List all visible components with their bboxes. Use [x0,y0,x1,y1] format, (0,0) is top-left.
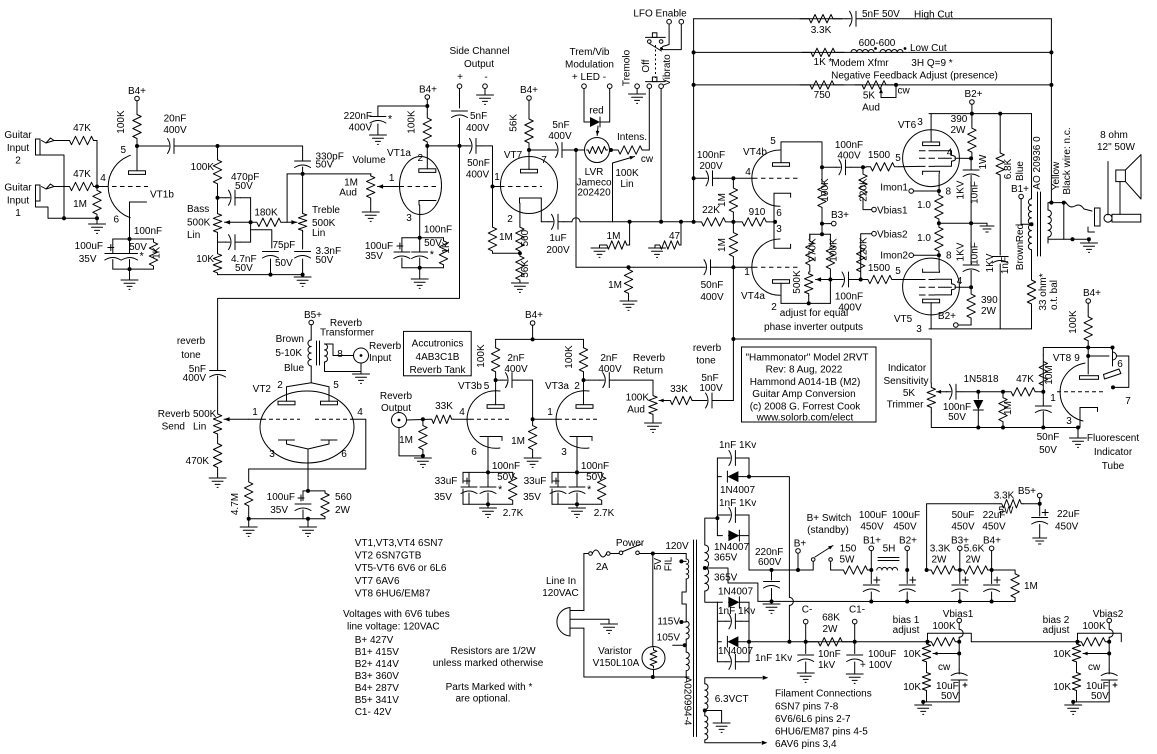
label pin 3 VT2 [269,449,275,460]
label A020994-4 [682,677,693,726]
svg-text:5H: 5H [883,544,896,555]
svg-text:VT6: VT6 [898,120,917,131]
label Blue [1015,161,1026,181]
label Reverb Tank [410,365,467,376]
svg-text:220K: 220K [859,178,870,202]
label AO 20936 0 [1032,136,1043,190]
label VT5 [894,314,913,325]
svg-text:1N5818: 1N5818 [963,374,998,385]
label B4+ (VT3) [525,310,543,321]
label 50V (VT3a k) [586,472,604,483]
svg-text:LFO Enable: LFO Enable [633,9,687,20]
potentiometer Bass 500K Lin [213,198,221,234]
jack J1 guitar input 1 [36,185,41,201]
wire trimmer bottom [931,412,1078,428]
label 5W (150) [840,555,856,566]
ground VT3b cathode [480,504,497,517]
svg-text:Guitar Amp Conversion: Guitar Amp Conversion [752,389,855,400]
jack Reverb Output [392,413,407,428]
resistor R 150 5W [840,566,872,574]
svg-text:Parts Marked with *: Parts Marked with * [446,682,533,693]
wire OT bottom [1031,250,1033,277]
svg-text:Resistors are 1/2W: Resistors are 1/2W [450,646,536,657]
label B+ [794,539,807,550]
resistor R 1K NFB [802,48,844,56]
junction varistor bottom [651,675,655,679]
label 560 (VT7) [520,229,531,246]
label 1K (VT1a k) [441,241,452,254]
label Aud (5K) [862,103,880,114]
junction rvb out node [421,417,425,421]
winding 6.3VCT lower [705,710,708,740]
label pin 5 VT2 [333,380,339,391]
junction VT6 cathode node [937,189,941,193]
label 50V (VT1b k) [129,242,147,253]
terminal B4+ VT8 [1086,299,1091,304]
ground 47 [649,245,666,257]
label 20nF 400V [163,114,187,137]
wire rect left rail lower [716,602,718,662]
svg-text:4.7M: 4.7M [230,493,241,515]
label 100nF (VT1b k) [134,226,162,237]
junction NFB riser row3 [1049,83,1053,87]
svg-text:1K: 1K [152,246,163,259]
resistor R 100K VT1a plate [423,114,431,146]
junction VT5 screen node [969,285,973,289]
svg-text:50nF: 50nF [467,158,490,169]
label 100nF (VT3a k) [581,461,609,472]
svg-text:(standby): (standby) [807,525,849,536]
wire B4+ to 100K [136,101,138,107]
jack J2 guitar input 2 [36,139,41,155]
svg-text:VT1a: VT1a [387,148,411,159]
label LFO Enable [633,9,687,20]
svg-text:120VAC: 120VAC [542,588,579,599]
label Vbias1 [877,206,908,217]
junction pin7 dot [1111,385,1115,389]
svg-text:1M: 1M [1024,581,1038,592]
junction VT8 cathode rail [1076,426,1080,430]
svg-text:B4+: B4+ [525,310,543,321]
label 10K (bias1 a) [903,649,921,660]
wire gnd stub VT1b k [129,269,131,280]
inductor modem xfmr L1 [851,50,874,53]
svg-text:Lin: Lin [187,230,200,241]
junction PI out lower [859,278,863,282]
junction VT1b plate node [135,144,139,148]
wire VT2 k net rails [249,491,325,519]
wire B+ row 2 [831,569,840,571]
junction spk return [1071,237,1075,241]
wire NFB riser [1050,19,1052,203]
svg-text:Treble: Treble [312,205,340,216]
label + (side channel) [457,72,463,83]
junction LVR out [609,148,613,152]
svg-text:Aud: Aud [339,188,357,199]
wire filament top [705,676,769,684]
winding HV upper 365V [705,545,709,568]
label 5nF 400V (send) [183,364,207,384]
junction VT5 cathode node [937,253,941,257]
svg-text:B1+: B1+ [863,536,881,547]
label 4AB3C1B [416,352,460,363]
label Negative Feedback Adjust (presence) [831,71,998,82]
svg-text:B+ 427V: B+ 427V [355,635,394,646]
switch power [610,544,653,555]
label VT3a [545,381,569,392]
terminal B1+ psu [869,546,874,570]
grid VT7 (dashed) [493,186,543,188]
capacitor C 50nF 400V PI [701,260,716,275]
ground 1M VT3a [524,456,541,468]
junction node 4 [95,185,99,189]
jack J2 tip contact [42,138,67,143]
svg-text:2: 2 [418,153,424,164]
label 3.3K (2W) [930,544,951,555]
svg-text:3: 3 [269,449,275,460]
wire tremolo to PI feed [575,150,577,267]
wire secondary top [1048,203,1066,205]
wire VT1a k gnd stub [419,268,421,279]
junction VT3a k top [575,470,579,474]
wire B1+ tap [1021,199,1031,224]
svg-text:100uF: 100uF [267,492,295,503]
wire VT3a k bottom [552,503,602,505]
wire jack1 sleeve [36,201,98,218]
wire B+ node row [749,569,813,571]
label o.t. bal [1049,280,1060,310]
label Intens. [617,132,647,143]
svg-text:1: 1 [494,172,500,183]
label 10uF (bias1) [936,681,959,692]
junction spk hot [1062,201,1066,205]
svg-text:2.7K: 2.7K [503,508,524,519]
resistor R 560 2W [321,491,329,519]
diode D 1N4007 loop4 [717,636,749,647]
svg-text:7: 7 [541,155,547,166]
svg-text:Reverb: Reverb [369,341,402,352]
svg-text:100K: 100K [1082,621,1106,632]
wire VT3b k bottom [463,503,513,505]
terminal B2+ psu [905,546,910,570]
svg-text:220nF: 220nF [344,111,372,122]
terminal side channel - [483,84,488,89]
label 5nF 400V (VT7) [548,120,572,142]
svg-text:560: 560 [520,229,531,246]
resistor R 100K VT3a [579,339,587,380]
label Brown (rvb) [276,334,304,345]
wire Vbias2 stub [1109,623,1113,642]
svg-text:Aud: Aud [627,405,645,416]
junction B5+ branch [925,568,929,572]
junction bass wiper/180K [249,220,253,224]
svg-text:Input: Input [369,353,391,364]
wire rvb out gnd [399,428,423,456]
svg-text:1nF 1Kv: 1nF 1Kv [719,440,756,451]
junction VT8 100K bottom [1086,346,1090,350]
svg-text:100K: 100K [476,344,487,368]
wire bias1 jog [928,633,972,642]
anode VT2 right [321,401,338,405]
label 1M (PI input) [608,280,622,291]
svg-text:A020994-4: A020994-4 [682,677,693,726]
label Power [616,538,645,549]
svg-text:4: 4 [957,276,963,287]
junction 22K/1M node [731,220,735,224]
svg-text:400V: 400V [163,125,187,136]
label 115V [657,617,680,628]
label B+ Switch [807,513,852,524]
svg-text:5: 5 [895,153,901,164]
winding OT secondary [1048,205,1051,243]
label pin 4 VT2 [357,407,363,418]
ground return pot [645,416,662,432]
junction cathode mid [937,221,941,225]
wire VT1a plate to 50nF [427,145,466,147]
svg-text:500K: 500K [193,409,217,420]
junction switch out [651,552,655,556]
resistor R 100K VT8 [1084,310,1092,348]
wiper intens [613,156,635,222]
wire primary mid [685,639,687,652]
svg-text:1kV: 1kV [818,660,836,671]
svg-text:(c) 2008 G. Forrest Cook: (c) 2008 G. Forrest Cook [750,401,862,412]
capacitor C 100nF 50V VT3b [480,472,503,504]
wire loop4 right [748,642,750,662]
resistor R 1500 lower [861,275,919,283]
wire side - gnd stub [484,89,486,96]
wire loop2 right [748,515,750,536]
label 100K (bias1) [932,621,956,632]
svg-text:Input: Input [7,143,29,154]
svg-text:35V: 35V [434,492,452,503]
resistor R 1M ind [999,392,1007,428]
resistor R 22K [694,218,734,226]
svg-text:VT8 6HU6/EM87: VT8 6HU6/EM87 [355,588,431,599]
grid VT3b (dashed) [454,418,513,420]
anode VT3a [576,405,593,409]
svg-text:+ LED -: + LED - [572,72,606,83]
svg-text:270K: 270K [808,238,819,262]
label 6HU6/EM87 pins 4-5 [775,727,868,738]
grid VT4b (dashed) [733,177,798,179]
hop B+ rail [789,597,793,641]
wire VT2 gnd stub [307,519,309,527]
resistor R 1.0 lower [935,223,943,255]
label Modem Xfmr [831,58,889,69]
label 100nF 200V [697,150,725,172]
junction 220nF tap [425,104,429,108]
terminal LFO 1 [667,19,672,24]
grid VT3a (dashed) [533,418,600,420]
label 33K (return) [670,384,688,395]
junction VT8 grid node [1041,390,1045,394]
label Send Lin [162,422,207,433]
label 50V (bias2) [1091,691,1109,702]
label 35V (VT3b) [434,492,452,503]
resistor R 47 [658,220,683,249]
svg-text:1: 1 [15,208,21,219]
svg-text:100nF: 100nF [835,140,863,151]
svg-text:reverb: reverb [693,343,722,354]
svg-text:2nF: 2nF [507,353,524,364]
svg-text:365V: 365V [714,573,738,584]
label adjust (2) [1043,625,1070,636]
label Vbias2 (psu) [1093,609,1124,620]
label B5+ (psu) [1018,486,1036,497]
wire rect left rail upper [716,458,718,536]
capacitor C 3.3nF 50V [295,252,311,275]
resistor R 6.8K 1W [996,114,1004,255]
junction bias2 gnd [1071,700,1075,704]
junction 220nF top [770,568,774,572]
svg-text:1KV: 1KV [956,180,967,199]
label VT1a [387,148,411,159]
svg-text:365V: 365V [714,553,738,564]
wire VT5 screen [955,286,971,288]
svg-text:Vbias2: Vbias2 [877,230,908,241]
label Reverb 500K [158,409,217,420]
capacitor C 1nF 1KV snubber [992,257,1008,329]
label bias 2 [1043,615,1070,626]
junction 1M gnd tap [627,265,631,269]
winding primary 120V [686,559,689,579]
label Yellow [1051,161,1062,190]
svg-text:VT2: VT2 [253,384,272,395]
speaker driver [1108,155,1141,215]
svg-text:5: 5 [895,266,901,277]
svg-text:3.3K: 3.3K [994,491,1015,502]
svg-text:B3+ 360V: B3+ 360V [355,671,400,682]
winding OT primary upper [1028,199,1031,225]
label pin 3 VT1a [406,213,412,224]
wire VT2 grid4 loop [249,419,366,469]
svg-text:100K: 100K [406,110,417,134]
svg-text:450V: 450V [860,522,884,533]
svg-text:1.0: 1.0 [917,200,931,211]
wire bias1 bottom [923,699,959,702]
resistor R 100K VT1b plate [133,107,141,146]
label 1M (PI lower) [717,238,728,252]
capacitor C 100nF 50V ind [947,384,979,399]
label cw (bias1) [938,662,951,673]
diode LED [584,117,610,127]
wire bias2 bottom [1073,699,1109,702]
svg-text:10nF: 10nF [970,181,981,204]
cable squiggle [1066,203,1092,211]
svg-text:VT7 6AV6: VT7 6AV6 [355,576,400,587]
junction VT3a grid node [531,417,535,421]
junction balance wiper [828,278,832,282]
svg-text:VT1b: VT1b [150,190,174,201]
junction bias2 wiper [1107,652,1111,656]
svg-text:Imon2: Imon2 [880,251,908,262]
label pin 4 VT6 [947,148,953,159]
potentiometer Reverb Send 500K Lin [213,400,221,437]
anode VT3b [487,405,504,409]
wiper bias2 [1083,652,1109,656]
resistor R 68K 2W [806,638,855,646]
wire indicator line [733,339,931,383]
wire VT3a plate lead [583,380,585,405]
tube VT3a envelope [556,391,589,449]
junction HV center tap [703,566,707,570]
resistor R 4.7M [245,469,253,519]
anode VT1a [419,169,436,173]
label 390 2W (lower) [981,295,998,317]
wire tone node to 330pF corner [218,145,303,147]
svg-text:Modulation: Modulation [565,60,614,71]
label 1M (VT3a) [511,436,525,447]
label parts note [446,682,533,705]
wire VT2 cathodes join [287,444,330,491]
label 220nF 400V [344,111,373,134]
wire OT primary top [1031,114,1033,199]
junction spk gnd node [1087,237,1091,241]
svg-text:Lin: Lin [620,179,633,190]
wire spk gnd stub [1088,239,1090,243]
core OT [1038,192,1041,256]
label 270K [808,238,819,262]
label 50V (ind2) [1039,445,1057,456]
svg-text:100K: 100K [191,162,215,173]
wire 50nF to grid-a [716,266,733,268]
svg-text:+ 100V: + 100V [860,660,892,671]
potentiometer Volume 1M Aud [367,174,375,200]
svg-text:33K: 33K [435,401,453,412]
junction bias2 right [1107,640,1111,644]
svg-text:450V: 450V [1055,522,1079,533]
wire VT7 cathode rail [493,252,520,254]
wire PI lower row [781,280,830,304]
label 22K [702,205,720,216]
svg-text:3: 3 [561,447,567,458]
svg-text:1M: 1M [608,280,622,291]
label 100K (VT8) [1068,310,1079,334]
potentiometer Treble 500K Lin [298,174,306,232]
grid VT6 g2 (dashed) [919,157,952,159]
label VT4b [743,147,767,158]
switch LFO pushbutton [646,33,666,51]
svg-text:1N4007: 1N4007 [720,485,755,496]
label 1uF 200V [546,233,570,256]
wire 2nF to return pot [615,380,653,394]
label 10K (bias1 b) [903,682,921,693]
label 100K (VT1a plate) [406,110,417,134]
resistor R 1M rvb out [419,419,427,456]
wire VT8 gnd stub [1077,428,1079,439]
wire volume gnd stub [370,200,372,212]
capacitor C 100nF 50V VT1b [122,239,145,269]
grid VT4a (dashed) [733,266,798,268]
ground volume [362,212,379,221]
label V150L10A [593,658,640,669]
ground 220nF [369,135,386,144]
ground VT2 cathode [300,527,317,536]
label pin 2 VT4a [771,302,777,313]
svg-text:-: - [484,72,487,83]
junction VT1a k bottom [418,266,422,270]
svg-text:unless marked otherwise: unless marked otherwise [433,658,544,669]
svg-text:5: 5 [770,136,776,147]
resistor R 3.3K 2W [927,566,960,574]
svg-text:Output: Output [381,403,411,414]
svg-text:1500: 1500 [868,263,891,274]
cathode VT3b [480,437,502,473]
svg-text:VT3a: VT3a [545,381,569,392]
label 1W [978,154,989,170]
svg-text:400V: 400V [700,292,724,303]
